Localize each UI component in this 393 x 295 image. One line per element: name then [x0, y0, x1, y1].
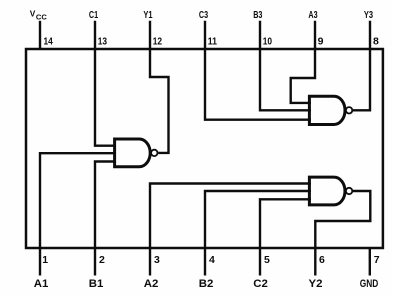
svg-text:Y1: Y1 [143, 10, 152, 21]
wire Y1: pin 12 to NAND U1 output bubble [150, 21, 169, 153]
wire A2: pin 3 to NAND U2 top input [150, 184, 311, 276]
svg-text:A2: A2 [144, 278, 159, 290]
svg-text:14: 14 [44, 36, 53, 48]
wire Y2: NAND U2 output bubble to pin 6 [315, 191, 370, 276]
svg-text:GND: GND [360, 278, 379, 290]
pin 7 GND stub [369, 248, 371, 276]
wire B3: pin 10 to NAND U3 middle input [260, 21, 311, 111]
svg-text:10: 10 [263, 36, 272, 48]
svg-text:C3: C3 [199, 10, 208, 21]
label VCC (pin 14) [30, 8, 48, 21]
wire C1: pin 13 to NAND U1 top input [95, 21, 116, 146]
wire Y3: pin 8 to NAND U3 output bubble [353, 21, 370, 111]
svg-text:B1: B1 [89, 278, 104, 290]
svg-text:Y2: Y2 [309, 278, 323, 290]
wire C2: pin 5 to NAND U2 bottom input [260, 199, 311, 275]
wire B2: pin 4 to NAND U2 middle input [205, 191, 311, 276]
svg-text:V: V [30, 8, 36, 18]
svg-text:B2: B2 [199, 278, 214, 290]
IC package outline [26, 49, 383, 248]
svg-text:6: 6 [319, 254, 325, 266]
wire A1: pin 1 to NAND U1 middle input [40, 153, 116, 275]
svg-text:11: 11 [208, 36, 217, 48]
svg-text:C2: C2 [253, 278, 268, 290]
svg-text:B3: B3 [253, 10, 262, 21]
svg-text:CC: CC [36, 12, 47, 21]
3-input NAND gate U2 (output Y2) [309, 177, 352, 205]
svg-text:4: 4 [209, 254, 215, 266]
3-input NAND gate U3 (output Y3) [309, 96, 352, 124]
svg-text:2: 2 [99, 254, 105, 266]
svg-text:5: 5 [264, 254, 270, 266]
wire A3: pin 9 jog to NAND U3 top input [291, 21, 315, 103]
svg-text:8: 8 [373, 36, 379, 48]
svg-text:Y3: Y3 [364, 10, 373, 21]
wire B1: pin 2 to NAND U1 bottom input [95, 162, 116, 276]
svg-text:9: 9 [318, 36, 324, 48]
pin 14 VCC stub [39, 21, 41, 49]
svg-text:13: 13 [98, 36, 107, 48]
3-input NAND gate U1 (output Y1) [115, 139, 158, 167]
svg-text:A3: A3 [308, 10, 317, 21]
svg-text:7: 7 [374, 254, 380, 266]
svg-text:C1: C1 [89, 10, 98, 21]
svg-text:3: 3 [154, 254, 160, 266]
svg-text:1: 1 [42, 254, 48, 266]
wire C3: pin 11 to NAND U3 bottom input [205, 21, 311, 120]
svg-text:12: 12 [153, 36, 162, 48]
svg-text:A1: A1 [34, 278, 49, 290]
